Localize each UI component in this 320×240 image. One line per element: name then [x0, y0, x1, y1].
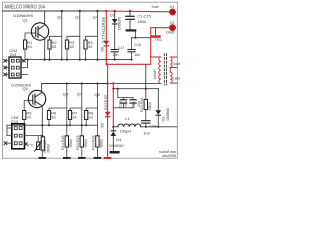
wire: bus2 (collector bus of bottom IGBTs): [42, 83, 108, 85]
wire: bus1 (emitter bus of top IGBTs): [25, 59, 132, 61]
wire: phantom vertical Q3: [79, 11, 81, 60]
wire: bus3 (gate return rail): [7, 124, 97, 126]
svg-text:D06E60: D06E60: [104, 94, 108, 110]
node Q3: [79, 10, 81, 12]
resistor R29-R33 33R0: [144, 99, 147, 109]
CN1 left wires: [7, 125, 12, 128]
svg-text:L1: L1: [125, 116, 129, 121]
svg-text:Q1: Q1: [23, 18, 28, 23]
capacitor C1-C15 150n: [129, 11, 131, 16]
wire: top bus red part to X1: [106, 10, 169, 13]
svg-text:0R62: 0R62: [69, 139, 73, 148]
CN2 right wires: [21, 60, 23, 62]
svg-text:0R62: 0R62: [100, 139, 104, 148]
svg-text:D06E60: D06E60: [109, 143, 124, 148]
TR1 secondary 1.8uH: [170, 68, 177, 84]
resistor R24-R28 0R62: [96, 136, 99, 147]
ground bar under D4: [110, 151, 120, 154]
svg-text:R29-R33: R29-R33: [140, 98, 144, 112]
capacitor C17 10n: [111, 50, 118, 52]
thermistor t°C: [37, 136, 39, 142]
svg-text:Q6: Q6: [63, 92, 69, 97]
svg-text:+wd: +wd: [151, 4, 159, 9]
svg-text:Q7: Q7: [77, 91, 82, 96]
wire: snubber column x145.8: [145, 64, 147, 99]
ground bar under R24: [94, 157, 102, 159]
wire: red vertical x113.3 down to L1 node: [112, 84, 114, 127]
svg-text:C20: C20: [118, 101, 122, 108]
ground bar under R14: [63, 157, 71, 159]
resistor R2 33: [48, 40, 51, 49]
svg-text:t°C: t°C: [28, 142, 34, 147]
node Q4: [96, 10, 98, 12]
capacitors C20 C21 top rail: [118, 89, 133, 98]
red node dots: [105, 10, 131, 90]
wire: X2 to primary top (red): [151, 28, 170, 65]
resistor R7 33: [68, 111, 71, 120]
wire: Q5 collector: [41, 84, 43, 93]
wire: red horizontal y64.3 to snubber column: [106, 63, 150, 65]
wire: Q1 collector: [44, 11, 46, 25]
capacitor C16 10n: [131, 38, 133, 50]
node dots bus1: [26, 59, 132, 61]
wire: Q1 emitter down to bus1: [44, 38, 46, 60]
svg-text:D5: D5: [100, 123, 104, 128]
svg-text:D06E60: D06E60: [118, 17, 122, 30]
wire: Q5 emitter down through bus3: [41, 105, 43, 136]
resistor R4 33: [84, 40, 87, 49]
ground bar (red) at main red line bottom: [104, 157, 111, 159]
svg-text:Q5: Q5: [23, 86, 29, 91]
diode D2 D06E60: [114, 11, 116, 19]
svg-text:1n2: 1n2: [143, 131, 150, 136]
wire: output rail y126.8: [141, 126, 177, 128]
svg-text:R14-R18: R14-R18: [61, 135, 65, 149]
TR1 primary winding 340uH: [158, 57, 161, 84]
capacitor C21: [132, 98, 134, 100]
node Q2: [61, 10, 63, 12]
resistor R8 33: [85, 111, 88, 120]
wire: phantom vertical Q6: [66, 84, 68, 136]
svg-text:X2: X2: [170, 20, 175, 25]
wire: node line y88.7 to D3: [113, 88, 158, 90]
diode D5 (red): [105, 112, 111, 117]
diode D6 STTH12R06 (red): [104, 41, 110, 47]
svg-text:AWELCO MIKRO 164: AWELCO MIKRO 164: [4, 4, 45, 10]
svg-text:STTH12R06: STTH12R06: [101, 16, 106, 43]
svg-text:R19-R23: R19-R23: [76, 135, 80, 149]
svg-text:C19: C19: [149, 124, 156, 129]
ground bar under R19: [78, 157, 86, 159]
wire: gnd link to X2 net: [135, 32, 137, 38]
transistor Q5 (IGBT G15N60HS): [28, 90, 45, 107]
transistor Q1 (IGBT G15N60HS): [31, 23, 48, 40]
resistor R5 33: [23, 111, 26, 120]
resistor R14-R18 0R62: [65, 136, 68, 147]
svg-text:X1: X1: [170, 4, 175, 9]
red main vertical: lower segment: [105, 46, 107, 64]
wire: Q1 gate to R1: [25, 33, 32, 40]
svg-text:C17: C17: [118, 46, 125, 50]
svg-text:10n: 10n: [113, 53, 119, 57]
svg-text:150n: 150n: [137, 19, 146, 24]
capacitor C20: [123, 98, 125, 100]
wire: phantom vertical Q4: [96, 11, 98, 60]
red main vertical: top segment to diode D6: [105, 11, 107, 41]
wire: Q5 gate to R5: [24, 101, 29, 111]
wire: phantom vertical Q8: [96, 84, 98, 136]
wire: red primary return y83.5: [108, 83, 160, 85]
resistor R9-R13 0R60: [41, 137, 44, 150]
wire: phantom vertical Q7: [81, 84, 83, 136]
CN1 right wires: [25, 135, 43, 137]
svg-text:D2: D2: [110, 14, 115, 18]
svg-text:TR1: TR1: [155, 37, 162, 42]
resistor R1 33: [24, 40, 27, 49]
svg-text:0R60: 0R60: [46, 144, 50, 153]
svg-text:2x3: 2x3: [10, 52, 17, 57]
svg-text:G15N60HS: G15N60HS: [11, 83, 32, 88]
diode D3 D06E60 (rectifier): [157, 89, 159, 111]
resistor R3 33: [65, 40, 68, 49]
svg-text:C21: C21: [132, 101, 136, 108]
svg-text:D6: D6: [100, 47, 104, 52]
svg-text:mk2006: mk2006: [162, 153, 177, 158]
ground (red) at X2: [155, 28, 157, 36]
svg-text:D4: D4: [116, 137, 122, 142]
TR1 secondary 44uH: [170, 57, 177, 68]
svg-text:1.8uH: 1.8uH: [172, 76, 180, 80]
svg-text:10n: 10n: [124, 101, 128, 107]
svg-text:0R62: 0R62: [84, 139, 88, 148]
diode D4 D06E60 (freewheel): [112, 126, 114, 128]
capacitor C19 1n2: [142, 121, 150, 123]
resistor R19-R23 0R62: [80, 136, 83, 147]
svg-text:340uH: 340uH: [153, 69, 157, 80]
svg-text:C1-C15: C1-C15: [137, 14, 151, 19]
svg-text:R24-R28: R24-R28: [92, 135, 96, 149]
svg-text:D06E60: D06E60: [166, 108, 170, 121]
wire: top bus (black part): [2, 10, 106, 12]
resistor R6 33: [47, 111, 50, 120]
CN2 left wires with x marks: [6, 61, 10, 75]
svg-text:10n: 10n: [134, 53, 140, 57]
ground bar under R9: [39, 157, 47, 159]
svg-text:33R0: 33R0: [148, 102, 152, 111]
svg-text:100µH: 100µH: [120, 129, 132, 134]
svg-text:44uH: 44uH: [173, 62, 180, 66]
ground bar under C1-C15: [126, 29, 137, 31]
svg-text:C16: C16: [135, 43, 142, 47]
wire: phantom vertical Q2: [61, 11, 63, 60]
caps bottom rail to red node: [113, 107, 133, 109]
svg-text:GND: GND: [166, 30, 175, 35]
TR1 core: [164, 54, 166, 86]
border frame outer: [2, 2, 177, 158]
